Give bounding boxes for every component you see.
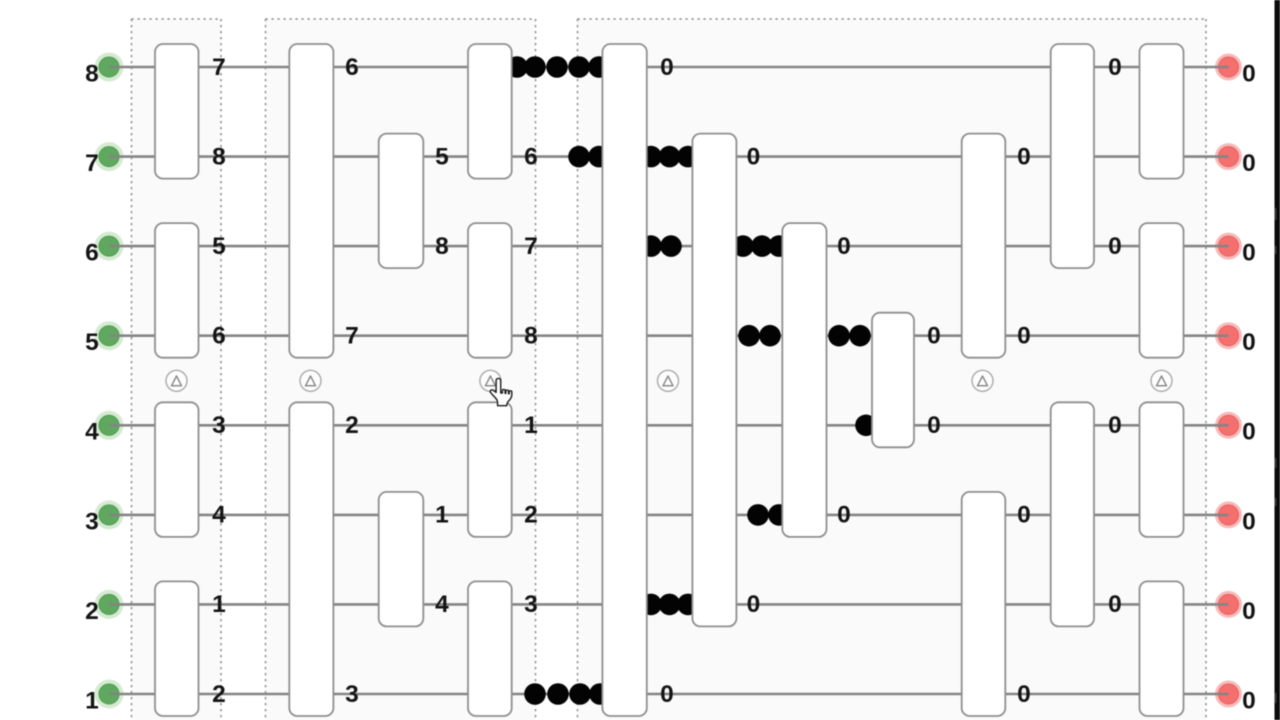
svg-text:8: 8 (524, 323, 538, 350)
svg-text:0: 0 (1108, 54, 1122, 81)
ball row 1 (524, 683, 546, 705)
svg-text:0: 0 (1017, 323, 1031, 350)
svg-text:0: 0 (1242, 508, 1256, 535)
wire row 1 (109, 693, 1229, 696)
svg-text:4: 4 (85, 419, 99, 446)
svg-text:4: 4 (212, 502, 226, 529)
svg-text:0: 0 (1242, 329, 1256, 356)
svg-text:4: 4 (435, 591, 449, 618)
svg-text:0: 0 (1017, 143, 1031, 170)
svg-text:7: 7 (345, 323, 359, 350)
svg-text:3: 3 (212, 412, 226, 439)
input node 6 (95, 232, 124, 261)
input node 3 (95, 500, 124, 529)
svg-text:0: 0 (1108, 412, 1122, 439)
svg-text:6: 6 (345, 54, 359, 81)
ball row 1 (547, 683, 569, 705)
input node 8 (95, 53, 124, 82)
svg-text:1: 1 (524, 412, 538, 439)
stage group 2 dotted border (266, 19, 536, 720)
stage group 2 background (266, 19, 536, 720)
svg-text:6: 6 (85, 240, 99, 267)
comparator C11a rows 8-7 (1140, 44, 1184, 179)
comparator C4d rows 2-1 (468, 581, 512, 716)
ball row 7 (677, 146, 699, 168)
stage play button 4 (658, 370, 679, 391)
ball row 8 (524, 56, 546, 78)
svg-text:1: 1 (85, 687, 99, 714)
svg-text:0: 0 (1242, 598, 1256, 625)
ball row 5 (849, 325, 871, 347)
stage group 3 background (578, 19, 1207, 720)
ball row 5 (828, 325, 850, 347)
svg-text:7: 7 (212, 54, 226, 81)
ball row 2 (659, 594, 681, 616)
black bar speckles (1275, 208, 1277, 703)
stage group 1 dotted border (132, 19, 222, 720)
svg-text:1: 1 (212, 591, 226, 618)
ball row 5 (738, 325, 760, 347)
stage play button 6 (1151, 370, 1172, 391)
ball row 7 (588, 146, 610, 168)
ball row 1 (589, 683, 611, 705)
wire row 4 (109, 424, 1229, 427)
comparator C1a rows 8-7 (155, 44, 199, 179)
svg-text:0: 0 (1242, 150, 1256, 177)
stage play button 3 (480, 370, 501, 391)
svg-text:3: 3 (85, 508, 99, 535)
output node row 8 (1215, 54, 1242, 81)
ball row 6 (751, 235, 773, 257)
input node 5 (95, 321, 124, 350)
svg-text:0: 0 (1242, 419, 1256, 446)
stage play button 1 (166, 370, 187, 391)
svg-text:5: 5 (85, 329, 99, 356)
ball row 7 (640, 146, 662, 168)
svg-text:0: 0 (927, 412, 941, 439)
svg-text:6: 6 (212, 323, 226, 350)
input node 1 (95, 680, 124, 709)
svg-text:0: 0 (1242, 687, 1256, 714)
wire row 5 (109, 334, 1229, 337)
ball row 8 (506, 56, 528, 78)
comparator C7 rows 6-3 (782, 223, 826, 537)
comparator C2b rows 4-1 (289, 402, 333, 716)
comparator C4b rows 6-5 (468, 223, 512, 358)
wire row 8 (109, 66, 1229, 69)
ball row 6 (732, 235, 754, 257)
wire row 6 (109, 245, 1229, 248)
ball row 3 (747, 504, 769, 526)
ball row 8 (568, 56, 590, 78)
svg-text:7: 7 (85, 150, 99, 177)
comparator C9a rows 7-5 (962, 134, 1006, 358)
ball row 5 (759, 325, 781, 347)
comparator C3a rows 7-6 (379, 134, 424, 269)
output node row 3 (1215, 501, 1242, 528)
output node row 1 (1215, 681, 1242, 708)
ball row 7 (659, 146, 681, 168)
ball row 1 (569, 683, 591, 705)
output node row 6 (1215, 233, 1242, 260)
svg-text:8: 8 (85, 60, 99, 87)
svg-text:0: 0 (660, 681, 674, 708)
svg-text:3: 3 (524, 591, 538, 618)
comparator C11b rows 6-5 (1140, 223, 1184, 358)
comparator C4c rows 4-3 (468, 402, 512, 537)
svg-text:0: 0 (1242, 240, 1256, 267)
ball row 7 (568, 146, 590, 168)
svg-text:0: 0 (837, 233, 851, 260)
ball row 2 (640, 594, 662, 616)
wire row 7 (109, 155, 1229, 158)
comparator C1b rows 6-5 (155, 223, 199, 358)
wire row 2 (109, 603, 1229, 606)
comparator C8 rows 5-4 (872, 313, 914, 448)
svg-text:0: 0 (1017, 681, 1031, 708)
stage play button 5 (972, 370, 993, 391)
svg-text:1: 1 (435, 502, 449, 529)
input node 2 (95, 590, 124, 619)
svg-text:2: 2 (85, 598, 99, 625)
comparator C1d rows 2-1 (155, 581, 199, 716)
comparator C10b rows 4-2 (1051, 402, 1094, 626)
svg-text:3: 3 (345, 681, 359, 708)
input node 7 (95, 142, 124, 171)
svg-text:5: 5 (435, 143, 449, 170)
wire row 3 (109, 514, 1229, 517)
comparator C11d rows 2-1 (1140, 581, 1184, 716)
svg-text:0: 0 (1108, 591, 1122, 618)
comparator C2a rows 8-5 (289, 44, 333, 358)
ball row 6 (660, 235, 682, 257)
mouse cursor (hand pointer) (490, 378, 512, 405)
video edge black bar (1275, 0, 1280, 720)
ball row 6 (640, 235, 662, 257)
ball row 8 (546, 56, 568, 78)
comparator C11c rows 4-3 (1140, 402, 1184, 537)
comparator C4a rows 8-7 (468, 44, 512, 179)
svg-text:6: 6 (524, 143, 538, 170)
output node row 2 (1215, 591, 1242, 618)
ball row 8 (588, 56, 610, 78)
ball row 6 (768, 235, 790, 257)
output node row 7 (1215, 143, 1242, 170)
svg-text:0: 0 (837, 502, 851, 529)
svg-text:0: 0 (1108, 233, 1122, 260)
comparator C1c rows 4-3 (155, 402, 199, 537)
svg-text:0: 0 (747, 591, 761, 618)
stage group 3 dotted border (578, 19, 1207, 720)
stage play button 2 (300, 370, 321, 391)
comparator C9b rows 3-1 (962, 492, 1006, 716)
svg-text:8: 8 (435, 233, 449, 260)
svg-text:0: 0 (747, 143, 761, 170)
svg-text:7: 7 (524, 233, 538, 260)
stage group 1 background (132, 19, 222, 720)
svg-text:5: 5 (212, 233, 226, 260)
svg-text:2: 2 (345, 412, 359, 439)
output node row 4 (1215, 412, 1242, 439)
ball row 3 (768, 504, 790, 526)
svg-text:0: 0 (1017, 502, 1031, 529)
svg-text:0: 0 (927, 323, 941, 350)
output node row 5 (1215, 322, 1242, 349)
svg-text:0: 0 (660, 54, 674, 81)
svg-text:8: 8 (212, 143, 226, 170)
comparator C6 rows 7-2 (692, 134, 736, 627)
svg-text:2: 2 (524, 502, 538, 529)
ball row 2 (677, 594, 699, 616)
input node 4 (95, 411, 124, 440)
comparator C5 rows 8-1 (602, 44, 646, 716)
comparator C10a rows 8-6 (1051, 44, 1094, 268)
ball row 4 (855, 415, 877, 437)
svg-text:2: 2 (212, 681, 226, 708)
comparator C3b rows 3-2 (379, 492, 424, 627)
svg-text:0: 0 (1242, 60, 1256, 87)
